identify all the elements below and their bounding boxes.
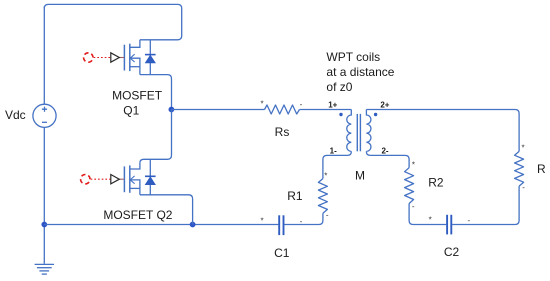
wire R1 bottom to C1: [284, 213, 323, 224]
svg-text:*: *: [260, 100, 263, 109]
node junction dot Vdc negative / bottom rail: [41, 222, 47, 228]
WPT coil primary winding (left): [347, 110, 352, 152]
svg-text:2+: 2+: [380, 101, 389, 110]
resistor R1: [318, 179, 327, 214]
voltage source Vdc: [33, 104, 56, 127]
svg-text:-: -: [300, 100, 303, 109]
svg-text:Q1: Q1: [123, 104, 139, 118]
ground: [35, 264, 54, 274]
svg-text:WPT coils: WPT coils: [326, 50, 380, 64]
svg-text:*: *: [429, 215, 432, 224]
svg-text:of z0: of z0: [326, 80, 352, 94]
wire top rail from Vdc positive to Q1 drain drop: [44, 4, 181, 39]
svg-text:R: R: [537, 162, 546, 176]
wire R2 bottom to C2: [409, 204, 446, 225]
body diode of Q2: [145, 159, 156, 195]
polarity dot primary: [339, 113, 342, 116]
gate driver input Q1 (red dashed port): [84, 53, 124, 62]
wire coil 2- to R2 top: [366, 151, 409, 167]
svg-text:at a distance: at a distance: [326, 65, 394, 79]
wire node A to Rs: [172, 109, 265, 111]
svg-text:MOSFET: MOSFET: [112, 88, 163, 102]
svg-text:*: *: [324, 172, 327, 181]
wire coil 1- to R1 top: [323, 151, 351, 178]
svg-text:Rs: Rs: [275, 125, 290, 139]
svg-text:-: -: [467, 216, 470, 225]
wire Q2 source to bottom rail: [140, 195, 193, 225]
node A junction dot (Q1 source / Q2 drain / Rs): [169, 107, 175, 113]
transistor Q2 MOSFET symbol: [124, 163, 139, 195]
svg-text:Vdc: Vdc: [5, 108, 26, 122]
svg-text:-: -: [412, 202, 415, 211]
gate driver input Q2 (red dashed port): [81, 175, 124, 184]
svg-text:*: *: [522, 144, 525, 153]
svg-text:C2: C2: [444, 245, 460, 259]
svg-text:*: *: [260, 216, 263, 225]
resistor Rs: [265, 105, 300, 114]
transformer core: [357, 114, 360, 151]
svg-text:1+: 1+: [328, 101, 337, 110]
transistor Q1 MOSFET symbol: [124, 40, 139, 75]
wire left rail upper segment: [43, 7, 45, 105]
svg-text:R1: R1: [287, 189, 303, 203]
resistor R2: [405, 168, 414, 204]
body diode of Q1: [145, 40, 156, 75]
wire Rs to coil 1+: [300, 109, 352, 111]
svg-text:R2: R2: [428, 176, 444, 190]
wire coil 2+ to R top: [366, 110, 519, 152]
capacitor C2: [447, 215, 451, 235]
wire Q1 source to node A: [140, 75, 172, 110]
svg-text:*: *: [412, 161, 415, 170]
wire bottom rail left (Vdc to C1): [44, 224, 278, 226]
wire C2 to R bottom: [452, 186, 519, 224]
wire node A to Q2 drain: [140, 110, 172, 163]
resistor R: [515, 151, 524, 186]
svg-text:1-: 1-: [330, 147, 337, 156]
svg-text:-: -: [522, 183, 525, 192]
svg-text:MOSFET Q2: MOSFET Q2: [103, 208, 172, 222]
svg-text:-: -: [300, 217, 303, 226]
polarity dot secondary: [374, 113, 377, 116]
capacitor C1: [279, 215, 283, 235]
svg-text:M: M: [355, 168, 365, 182]
svg-text:-: -: [326, 211, 329, 220]
WPT coil secondary winding (right): [366, 110, 371, 152]
svg-text:2-: 2-: [381, 147, 388, 156]
svg-text:C1: C1: [274, 246, 290, 260]
wire left rail lower segment to ground: [43, 127, 45, 263]
node junction dot Q2 source on bottom rail: [190, 222, 196, 228]
